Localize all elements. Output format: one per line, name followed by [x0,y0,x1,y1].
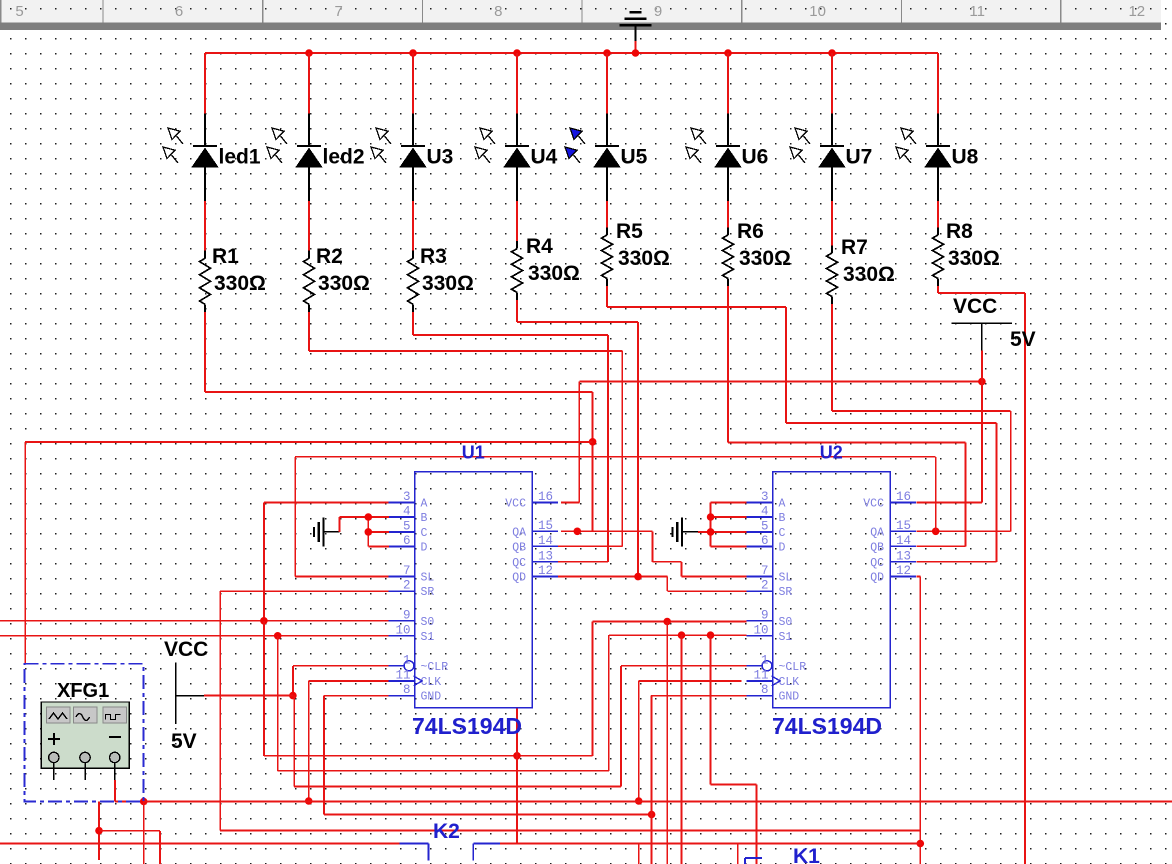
svg-text:S0: S0 [421,616,435,629]
pin 2 SR of U1 [389,590,415,592]
vertical under U1 [516,708,518,756]
svg-text:R2: R2 [316,245,343,268]
wire bus to led2 [308,53,310,113]
wire R4 to U1 QD [516,300,518,322]
pin 13 QC of U2 [890,561,916,563]
svg-text:10: 10 [395,623,410,637]
S1 link U1-U2 [277,636,279,771]
wire bus to U8 [937,53,939,113]
svg-text:2: 2 [403,579,411,593]
svg-text:5: 5 [761,519,769,533]
svg-text:15: 15 [538,519,553,533]
svg-text:QA: QA [512,526,526,539]
wires ground to U1 B C D [339,517,341,532]
svg-text:C: C [779,527,786,540]
U1 SR row [220,590,389,592]
svg-text:U7: U7 [846,146,873,169]
svg-text:3: 3 [761,490,769,504]
svg-text:2: 2 [761,579,769,593]
K2 to QD-U2 [500,843,920,845]
svg-text:SL: SL [421,572,435,585]
U2 GND row [651,695,747,697]
pin 10 S1 of U1 [389,635,415,637]
pin 14 QB of U2 [890,545,916,547]
svg-text:~CLR: ~CLR [779,661,807,674]
svg-text:U8: U8 [952,146,979,169]
U2 CLK row [639,680,742,682]
VCC source left 5V [164,638,208,753]
svg-text:SL: SL [779,572,793,585]
svg-text:5: 5 [15,3,23,20]
pin 6 D of U1 [389,546,415,548]
svg-text:VCC: VCC [164,638,208,661]
svg-text:6: 6 [761,534,769,548]
resistor R5 [602,228,613,287]
VCC right rail [579,381,982,383]
VCC chain to U2 ~CLR [293,696,295,787]
svg-text:9: 9 [654,3,662,20]
svg-text:U6: U6 [742,146,769,169]
pin 12 QD of U1 [532,576,558,578]
svg-text:12: 12 [538,564,553,578]
wire bus to U7 [831,53,833,113]
svg-text:15: 15 [896,519,911,533]
resistor R1 [200,251,211,313]
wire R7 to U2 QA [831,304,833,411]
wire long horizontal y442 [25,441,592,443]
svg-text:QB: QB [870,541,884,554]
resistor R7 [827,246,838,305]
wire U1 QA row [561,530,653,532]
pin 6 D of U2 [747,546,773,548]
wire U8 to resistor [937,201,939,227]
S0-U2 branch down [666,622,668,864]
XFG1 function generator [24,664,143,802]
svg-text:led1: led1 [219,146,261,169]
svg-text:8: 8 [761,683,769,697]
staircase QA-U1 to U2 SL [651,531,653,562]
wire R2 to U1 QB [308,312,310,351]
svg-text:D: D [421,542,428,555]
svg-text:7: 7 [403,564,411,578]
svg-text:10: 10 [753,623,768,637]
XFG1 area verticals [98,802,100,861]
svg-text:9: 9 [761,608,769,622]
svg-text:330Ω: 330Ω [843,263,895,286]
pin 4 B of U1 [389,516,415,518]
K1 bracket wires [638,844,640,864]
svg-text:CLK: CLK [779,676,800,689]
VCC left tail red [204,695,293,697]
svg-text:QD: QD [870,572,884,585]
svg-text:A: A [421,497,428,510]
svg-text:VCC: VCC [953,295,997,318]
resistor R3 [408,251,419,313]
svg-text:R8: R8 [946,220,973,243]
pin 9 S0 of U2 [747,620,773,622]
wire R1 to U1 QA [204,312,206,392]
wire led2 to resistor [308,201,310,250]
LED U7 [790,113,846,201]
XFG1 output bus y801 [114,780,116,802]
LED U3 [371,113,427,201]
top bus wire [205,52,938,54]
wire bus to U3 [412,53,414,113]
svg-text:R4: R4 [526,235,553,258]
S1-U2 branch down 2 [710,635,712,784]
LED U4 [475,113,531,201]
S1-U2 branch down 1 [681,635,683,864]
svg-text:14: 14 [538,534,553,548]
svg-text:4: 4 [403,505,411,519]
wire R8 down right edge [937,286,939,293]
svg-text:10: 10 [809,3,826,20]
svg-text:330Ω: 330Ω [422,272,474,295]
pin 3 A of U2 [747,501,773,503]
svg-text:3: 3 [403,490,411,504]
svg-text:1: 1 [761,653,769,667]
pin 4 B of U2 [747,516,773,518]
svg-text:7: 7 [335,3,343,20]
switch K1 (cut off) [745,858,762,864]
svg-text:5: 5 [403,519,411,533]
svg-text:GND: GND [779,691,800,704]
LED led2 [267,113,323,201]
svg-text:S0: S0 [779,616,793,629]
svg-text:B: B [779,512,786,525]
svg-text:GND: GND [421,691,442,704]
pin 14 QB of U1 [532,545,558,547]
svg-text:S1: S1 [779,631,793,644]
svg-text:SR: SR [421,586,435,599]
LED U8 [896,113,952,201]
svg-text:U3: U3 [427,146,454,169]
pin 15 QA of U1 [532,530,558,532]
wire U2 QD down to K1 row [917,576,921,578]
pin 3 A of U1 [389,501,415,503]
svg-text:S1: S1 [421,631,435,644]
svg-text:12: 12 [1128,3,1145,20]
wire U3 to resistor [412,201,414,250]
svg-text:led2: led2 [323,146,365,169]
svg-text:CLK: CLK [421,676,442,689]
pin 5 C of U2 [747,531,773,533]
svg-text:8: 8 [494,3,502,20]
svg-text:R5: R5 [616,220,643,243]
pin 7 SL of U2 [747,576,773,578]
LED U5 [565,113,621,201]
wire U1 pin A to S0 node [264,501,389,503]
ground at U1 inputs [314,518,340,547]
svg-text:11: 11 [969,3,985,20]
wire U7 to resistor [831,201,833,245]
pin 5 C of U1 [389,531,415,533]
svg-text:SR: SR [779,586,793,599]
wire bus to U4 [516,53,518,113]
U1 ~CLR + VCC tie [293,665,404,667]
svg-text:16: 16 [538,490,553,504]
junction dot R1/left-long-wire [589,438,597,446]
wire U6 to resistor [727,201,729,227]
resistor R4 [512,241,523,300]
svg-text:VCC: VCC [505,497,526,510]
wires ground to U2 A B C D [698,531,711,533]
svg-text:U4: U4 [531,146,558,169]
svg-text:9: 9 [403,608,411,622]
svg-text:B: B [421,512,428,525]
svg-text:4: 4 [761,505,769,519]
wire QD-U1 to U2 SR [666,577,668,592]
svg-text:6: 6 [175,3,183,20]
wire U2 QA up-left to U1 SL [935,457,937,532]
ground (top, at bus) [620,12,652,41]
ground at U2 inputs [673,518,699,547]
svg-text:330Ω: 330Ω [618,247,670,270]
svg-text:7: 7 [761,564,769,578]
svg-text:K1: K1 [793,845,820,864]
svg-text:U2: U2 [820,443,843,463]
svg-text:XFG1: XFG1 [57,680,109,702]
svg-text:11: 11 [753,668,768,682]
svg-text:13: 13 [896,549,911,563]
bottom wire to K2 [0,843,399,845]
U1 CLK row [309,680,389,682]
VCC source right 5V [952,295,1036,382]
pin 8 GND of U2 [747,695,773,697]
wire bus to U6 [727,53,729,113]
svg-text:QB: QB [512,541,526,554]
svg-text:C: C [421,527,428,540]
wire bus to led1 [204,53,206,113]
S0 link U1-U2 [263,621,265,756]
svg-text:12: 12 [896,564,911,578]
svg-text:~CLR: ~CLR [421,661,449,674]
switch K2 [399,844,500,861]
pin 12 QD of U2 [890,576,916,578]
svg-text:5V: 5V [1010,328,1036,351]
wire R6 to U2 QB [727,286,729,443]
U1 GND row [324,695,389,697]
svg-text:U5: U5 [621,146,648,169]
LED U6 [686,113,742,201]
svg-text:R6: R6 [737,220,764,243]
bus junction dots [305,49,313,57]
svg-text:8: 8 [403,683,411,697]
wire U1 QD row [558,576,667,578]
wire ground stem to bus [635,41,637,54]
svg-text:11: 11 [395,668,410,682]
U1 S1 row from left edge [0,635,389,637]
wire U5 to resistor [606,201,608,227]
pin 10 S1 of U2 [747,635,773,637]
pin 13 QC of U1 [532,561,558,563]
resistor R2 [304,251,315,313]
wire led1 to resistor [204,201,206,250]
ruler tick lines [102,0,104,23]
svg-text:D: D [779,542,786,555]
pin 8 GND of U1 [389,695,415,697]
svg-text:R3: R3 [420,245,447,268]
pin 1 ~CLR of U2 [747,665,762,667]
svg-text:6: 6 [403,534,411,548]
svg-text:QC: QC [870,557,884,570]
svg-text:74LS194D: 74LS194D [772,713,882,739]
pin 16 VCC of U2 [890,501,916,503]
wire U2 QA row [917,530,936,532]
wire bus to U5 [606,53,608,113]
svg-text:VCC: VCC [863,497,884,510]
ruler separator bar [0,23,1161,31]
svg-text:A: A [779,497,786,510]
svg-text:K2: K2 [433,820,460,843]
svg-text:R1: R1 [212,245,239,268]
svg-text:QD: QD [512,572,526,585]
junction dot R4/QD [634,573,642,581]
pin 15 QA of U2 [890,530,916,532]
svg-text:14: 14 [896,534,911,548]
pin 9 S0 of U1 [389,620,415,622]
svg-text:16: 16 [896,490,911,504]
pin 7 SL of U1 [389,576,415,578]
svg-text:U1: U1 [462,443,485,463]
U1 S0 row from left edge [0,620,389,622]
svg-text:330Ω: 330Ω [528,262,580,285]
svg-text:5V: 5V [171,730,197,753]
pin 16 VCC of U1 [532,501,558,503]
svg-text:R7: R7 [841,236,868,259]
LED led1 [163,113,219,201]
wire U4 to resistor [516,201,518,241]
svg-text:1: 1 [403,653,411,667]
resistor R8 [933,228,944,287]
svg-text:330Ω: 330Ω [214,272,266,295]
svg-text:330Ω: 330Ω [948,247,1000,270]
pin 11 CLK of U1 [389,680,415,682]
svg-text:74LS194D: 74LS194D [412,713,522,739]
resistor R6 [723,228,734,287]
svg-text:13: 13 [538,549,553,563]
pin 11 CLK of U2 [747,680,773,682]
wire R5 to U2 QC [606,286,608,307]
pin 1 ~CLR of U1 [389,665,404,667]
wire R3 to U1 QC [412,312,414,335]
IC U1 74LS194D [415,472,533,708]
svg-text:330Ω: 330Ω [318,272,370,295]
svg-text:QC: QC [512,557,526,570]
svg-text:330Ω: 330Ω [739,247,791,270]
pin 2 SR of U2 [747,590,773,592]
IC U2 74LS194D [773,472,891,708]
wire down to XFG1 corner [24,442,26,664]
SR wire bottom [220,829,920,831]
svg-text:QA: QA [870,526,884,539]
